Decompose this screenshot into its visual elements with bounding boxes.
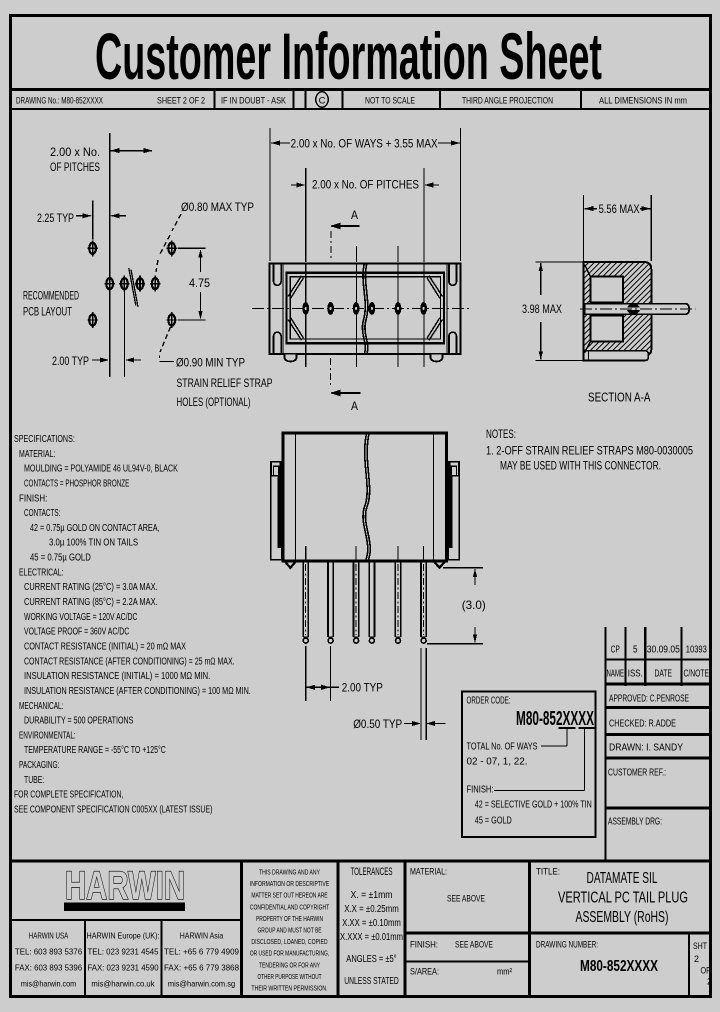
svg-text:HOLES (OPTIONAL): HOLES (OPTIONAL) (177, 395, 251, 409)
svg-text:TOLERANCES: TOLERANCES (351, 866, 393, 878)
leader finish (584, 728, 586, 791)
svg-text:mis@harwin.com.sg: mis@harwin.com.sg (168, 979, 235, 989)
confidentiality disclaimer text (250, 868, 330, 993)
leader total ways (566, 728, 568, 746)
pcb layout second extension line (123, 291, 125, 377)
drawn row (605, 757, 711, 760)
svg-text:HARWIN USA: HARWIN USA (29, 931, 69, 941)
svg-text:SEE ABOVE: SEE ABOVE (447, 894, 485, 905)
svg-text:X.X = ±0.25mm: X.X = ±0.25mm (344, 904, 399, 915)
svg-text:SHT: SHT (693, 941, 707, 951)
svg-text:SHEET 2 OF 2: SHEET 2 OF 2 (157, 96, 205, 107)
section A-A width dimension 5.56 MAX (583, 195, 585, 261)
top view right inner wall (446, 264, 448, 354)
front view pc tail pins (303, 562, 308, 643)
pad row 1 (105, 276, 115, 292)
section A-A bottom plate (584, 351, 649, 361)
svg-text:M80-852XXXX: M80-852XXXX (580, 958, 658, 975)
svg-text:INSULATION RESISTANCE (AFTER C: INSULATION RESISTANCE (AFTER CONDITIONIN… (24, 686, 251, 697)
svg-text:DRAWN: I. SANDY: DRAWN: I. SANDY (609, 743, 683, 754)
svg-text:VOLTAGE PROOF = 360V AC/DC: VOLTAGE PROOF = 360V AC/DC (24, 627, 129, 638)
section A-A cavity entry chamfers (585, 265, 591, 277)
pcb layout pad column extension line (92, 201, 94, 240)
pad bottom-right strain relief hole (167, 312, 177, 328)
section A-A top cavity (591, 277, 624, 303)
pad top-left (87, 240, 97, 256)
svg-text:2: 2 (694, 954, 699, 964)
front view left polarization ear (271, 462, 282, 560)
svg-text:2.00 x No. OF WAYS + 3.55 MAX: 2.00 x No. OF WAYS + 3.55 MAX (291, 137, 438, 151)
svg-text:2.00 x No. OF PITCHES: 2.00 x No. OF PITCHES (312, 178, 419, 192)
svg-text:3.0µ 100% TIN ON TAILS: 3.0µ 100% TIN ON TAILS (49, 538, 138, 549)
svg-text:X.XXX = ±0.01mm: X.XXX = ±0.01mm (340, 932, 403, 943)
top view left inner wall (282, 264, 284, 354)
svg-text:C: C (319, 96, 326, 107)
top view cavity outer rect (287, 273, 445, 343)
pcb layout break slashes (129, 268, 136, 306)
svg-text:mis@harwin.co.uk: mis@harwin.co.uk (91, 979, 155, 989)
svg-text:HARWIN Asia: HARWIN Asia (180, 931, 224, 941)
svg-text:MECHANICAL:: MECHANICAL: (19, 701, 64, 712)
svg-text:CP: CP (611, 645, 620, 656)
svg-text:M80-852XXXX: M80-852XXXX (516, 708, 594, 730)
svg-text:2: 2 (707, 977, 712, 987)
logo/contacts divider (12, 919, 241, 921)
svg-text:X.XX = ±0.10mm: X.XX = ±0.10mm (342, 918, 401, 929)
svg-text:THIRD ANGLE PROJECTION: THIRD ANGLE PROJECTION (462, 96, 553, 107)
svg-text:SEE COMPONENT SPECIFICATION C0: SEE COMPONENT SPECIFICATION C005XX (LATE… (14, 805, 212, 816)
label Ø0.90 MIN TYP strain relief straps with leader (160, 327, 171, 352)
top view latch hooks left (274, 265, 282, 286)
svg-text:CONTACT RESISTANCE (INITIAL) =: CONTACT RESISTANCE (INITIAL) = 20 mΩ MAX (24, 642, 186, 653)
svg-text:A: A (351, 208, 358, 222)
svg-text:45 = 0.75µ GOLD: 45 = 0.75µ GOLD (30, 553, 91, 564)
dimension 4.75 (178, 247, 206, 249)
pcb layout top pitch dimension arrow (110, 150, 152, 152)
svg-text:PACKAGING:: PACKAGING: (19, 760, 60, 771)
svg-text:IF IN DOUBT - ASK: IF IN DOUBT - ASK (221, 96, 287, 107)
front view break line (363, 434, 368, 560)
svg-text:2.00 TYP: 2.00 TYP (342, 681, 383, 695)
svg-text:TITLE:: TITLE: (536, 867, 560, 878)
svg-text:ENVIRONMENTAL:: ENVIRONMENTAL: (19, 730, 76, 741)
top view inner pin extension lines (356, 246, 358, 262)
svg-text:45 = GOLD: 45 = GOLD (475, 816, 512, 827)
pad row 2 (119, 276, 129, 292)
header copyright symbol (316, 92, 328, 108)
svg-text:FOR COMPLETE SPECIFICATION,: FOR COMPLETE SPECIFICATION, (14, 790, 123, 801)
dimension Ø0.50 TYP pin diameter (420, 648, 422, 740)
dimension 2.00 TYP pins (305, 646, 307, 701)
svg-text:4.75: 4.75 (189, 276, 210, 290)
svg-text:ALL DIMENSIONS IN mm: ALL DIMENSIONS IN mm (599, 96, 687, 107)
section A-A bottom cavity (591, 316, 624, 342)
svg-text:INFORMATION OR DESCRIPTIVE: INFORMATION OR DESCRIPTIVE (250, 879, 329, 888)
top view mounting peg tabs (285, 355, 297, 362)
front view right polarization ear (448, 462, 459, 560)
svg-text:CONTACTS:: CONTACTS: (24, 508, 60, 519)
svg-text:DRAWING NUMBER:: DRAWING NUMBER: (536, 940, 598, 951)
svg-text:UNLESS STATED: UNLESS STATED (344, 976, 399, 987)
top view cavity inner rect (290, 277, 440, 339)
header divider lines (214, 91, 216, 108)
svg-text:mis@harwin.com: mis@harwin.com (21, 979, 76, 989)
svg-text:PROPERTY OF THE HARWIN: PROPERTY OF THE HARWIN (256, 914, 323, 923)
bottom block vertical dividers (240, 862, 243, 996)
svg-text:NOTES:: NOTES: (486, 427, 516, 441)
top view contact pins (302, 302, 309, 315)
section arrow A bottom (330, 358, 332, 386)
svg-text:Ø0.90 MIN TYP: Ø0.90 MIN TYP (176, 356, 245, 370)
svg-text:FINISH:: FINISH: (410, 940, 438, 951)
svg-text:TUBE:: TUBE: (24, 775, 44, 786)
svg-text:OF: OF (701, 966, 711, 976)
pad row 3 (135, 276, 145, 292)
svg-text:MAY BE USED WITH THIS CONNECTO: MAY BE USED WITH THIS CONNECTOR. (500, 459, 661, 473)
svg-text:OR USED FOR MANUFACTURING,: OR USED FOR MANUFACTURING, (250, 949, 329, 958)
top view cavity chamfers (288, 276, 302, 297)
section A-A pin channel (585, 303, 652, 315)
svg-text:TEL: +65 6 779 4909: TEL: +65 6 779 4909 (164, 947, 239, 957)
svg-text:MATERIAL:: MATERIAL: (410, 867, 447, 878)
customer ref row (605, 807, 711, 810)
contact cell harwin europe (87, 931, 160, 989)
svg-text:TEMPERATURE RANGE = -55°C TO +: TEMPERATURE RANGE = -55°C TO +125°C (24, 745, 166, 756)
svg-text:THEIR WRITTEN PERMISSION.: THEIR WRITTEN PERMISSION. (251, 984, 327, 993)
svg-text:FINISH:: FINISH: (467, 785, 494, 796)
revision table grid (604, 627, 606, 686)
svg-text:GROUP AND MUST NOT BE: GROUP AND MUST NOT BE (258, 926, 322, 935)
title bar bottom rule (9, 88, 711, 91)
contact cell harwin asia (164, 931, 239, 989)
order code box (462, 692, 596, 838)
svg-text:CURRENT RATING (25°C) = 3.0A M: CURRENT RATING (25°C) = 3.0A MAX. (24, 582, 158, 593)
svg-text:MATERIAL:: MATERIAL: (19, 449, 55, 460)
svg-text:02 - 07, 1, 22.: 02 - 07, 1, 22. (467, 757, 528, 768)
section A-A contact crimp (627, 304, 640, 315)
svg-text:5.56 MAX: 5.56 MAX (599, 202, 640, 216)
svg-text:42 = 0.75µ GOLD ON CONTACT ARE: 42 = 0.75µ GOLD ON CONTACT AREA, (30, 523, 160, 534)
top view pin extension lines through body (305, 264, 307, 367)
svg-text:HARWIN: HARWIN (65, 864, 185, 908)
svg-text:CONFIDENTIAL AND COPYRIGHT: CONFIDENTIAL AND COPYRIGHT (250, 902, 330, 911)
svg-text:SEE ABOVE: SEE ABOVE (455, 940, 493, 951)
svg-text:OF PITCHES: OF PITCHES (50, 160, 100, 174)
svg-text:MOULDING = POLYAMIDE 46 UL94V-: MOULDING = POLYAMIDE 46 UL94V-0, BLACK (24, 464, 178, 475)
finish cell (405, 961, 530, 963)
section A-A height dimension 3.98 MAX (535, 261, 583, 263)
svg-text:TENDERING OR FOR ANY: TENDERING OR FOR ANY (259, 960, 320, 969)
top view horizontal centerline (252, 307, 471, 309)
front view mounting pegs (284, 563, 296, 570)
svg-text:STRAIN RELIEF STRAP: STRAIN RELIEF STRAP (177, 376, 273, 390)
svg-text:10393: 10393 (686, 645, 707, 656)
top view latch hooks right (449, 265, 457, 286)
bottom block top rule (9, 859, 711, 862)
top view overall width dimension 2.00 x No. OF WAYS + 3.55 MAX (269, 128, 271, 261)
svg-text:SECTION A-A: SECTION A-A (588, 391, 651, 405)
svg-text:ASSEMBLY (RoHS): ASSEMBLY (RoHS) (576, 909, 669, 926)
top view body outline (270, 264, 461, 355)
material/finish divider (405, 932, 711, 935)
top view break line (362, 263, 365, 355)
svg-text:S/AREA:: S/AREA: (410, 967, 439, 978)
top view pitch dimension 2.00 x No. OF PITCHES (305, 168, 307, 262)
svg-text:TOTAL No. OF WAYS: TOTAL No. OF WAYS (467, 742, 538, 753)
svg-text:NOT TO SCALE: NOT TO SCALE (365, 96, 415, 107)
order code underlines (559, 727, 576, 729)
pad row 4 (150, 276, 160, 292)
svg-text:C/NOTE: C/NOTE (684, 669, 710, 680)
svg-text:PCB LAYOUT: PCB LAYOUT (23, 305, 72, 319)
section A-A contact pin (585, 304, 690, 314)
section A-A hatched body (584, 262, 652, 356)
contact cell dividers (84, 920, 86, 996)
svg-text:TEL: 603 893 5376: TEL: 603 893 5376 (15, 947, 82, 957)
svg-text:RECOMMENDED: RECOMMENDED (23, 289, 79, 303)
svg-text:CONTACT RESISTANCE (AFTER COND: CONTACT RESISTANCE (AFTER CONDITIONING) … (24, 656, 235, 667)
svg-text:DISCLOSED, LOANED, COPIED: DISCLOSED, LOANED, COPIED (251, 937, 328, 946)
svg-text:APPROVED: C.PENROSE: APPROVED: C.PENROSE (609, 694, 689, 705)
harwin logo underline bar (64, 903, 185, 912)
svg-text:WORKING VOLTAGE = 120V AC/DC: WORKING VOLTAGE = 120V AC/DC (24, 612, 137, 623)
svg-text:DATE: DATE (655, 669, 673, 680)
pcb layout main extension line (109, 133, 111, 377)
svg-text:Ø0.80 MAX TYP: Ø0.80 MAX TYP (181, 200, 254, 214)
svg-text:THIS DRAWING AND ANY: THIS DRAWING AND ANY (259, 868, 320, 877)
svg-text:(3.0): (3.0) (462, 598, 486, 612)
front view pin root stubs (305, 546, 307, 560)
dimension (3.0) tail length (443, 567, 483, 569)
svg-text:FAX: 023 9231 4590: FAX: 023 9231 4590 (87, 963, 158, 973)
contact cell harwin usa (15, 931, 82, 989)
svg-text:FAX: +65 6 779 3868: FAX: +65 6 779 3868 (164, 963, 239, 973)
section A-A pin centerline (580, 308, 696, 310)
svg-text:ELECTRICAL:: ELECTRICAL: (19, 567, 64, 578)
specifications text block (14, 434, 251, 816)
tolerances text (340, 866, 403, 987)
svg-text:30.09.05: 30.09.05 (647, 645, 680, 656)
svg-text:3.98 MAX: 3.98 MAX (522, 302, 562, 316)
svg-text:2.00 x No.: 2.00 x No. (50, 145, 100, 159)
svg-text:NAME: NAME (607, 669, 625, 680)
svg-text:Ø0.50 TYP: Ø0.50 TYP (353, 717, 402, 731)
svg-text:CURRENT RATING (85°C) = 2.2A M: CURRENT RATING (85°C) = 2.2A MAX. (24, 597, 158, 608)
svg-text:CHECKED: R.ADDE: CHECKED: R.ADDE (609, 719, 676, 730)
front view inner wall lines (294, 434, 296, 560)
pad top-right strain relief hole (167, 240, 177, 256)
sheet cell divider (688, 935, 690, 996)
svg-text:MATTER SET OUT HEREON ARE: MATTER SET OUT HEREON ARE (251, 891, 327, 900)
svg-text:5: 5 (633, 645, 638, 656)
svg-text:VERTICAL PC TAIL PLUG: VERTICAL PC TAIL PLUG (558, 890, 688, 907)
svg-text:mm²: mm² (497, 967, 512, 978)
svg-text:FAX: 603 893 5396: FAX: 603 893 5396 (15, 963, 82, 973)
svg-text:ORDER CODE:: ORDER CODE: (467, 696, 511, 707)
svg-text:CONTACTS = PHOSPHOR BRONZE: CONTACTS = PHOSPHOR BRONZE (24, 479, 130, 490)
svg-text:ASSEMBLY DRG:: ASSEMBLY DRG: (608, 817, 662, 828)
svg-text:OTHER PURPOSE WITHOUT: OTHER PURPOSE WITHOUT (258, 972, 322, 981)
svg-text:A: A (351, 399, 358, 413)
svg-text:INSULATION RESISTANCE (INITIAL: INSULATION RESISTANCE (INITIAL) = 1000 M… (24, 671, 210, 682)
svg-text:FINISH:: FINISH: (19, 493, 47, 504)
svg-text:DRAWING No.: M80-852XXXX: DRAWING No.: M80-852XXXX (16, 96, 103, 107)
header row bottom rule (9, 108, 711, 110)
svg-text:Customer Information Sheet: Customer Information Sheet (95, 19, 602, 93)
svg-text:DURABILITY = 500 OPERATIONS: DURABILITY = 500 OPERATIONS (24, 716, 134, 727)
svg-text:ISS.: ISS. (628, 669, 643, 680)
svg-text:TEL: 023 9231 4545: TEL: 023 9231 4545 (87, 947, 158, 957)
approved row (605, 706, 711, 709)
svg-text:1. 2-OFF STRAIN RELIEF STRAPS: 1. 2-OFF STRAIN RELIEF STRAPS M80-003000… (486, 444, 693, 458)
svg-text:DATAMATE SIL: DATAMATE SIL (587, 870, 658, 887)
svg-text:2.25 TYP: 2.25 TYP (37, 211, 74, 225)
front view body outline (283, 433, 446, 561)
svg-text:CUSTOMER REF.:: CUSTOMER REF.: (608, 768, 666, 779)
svg-text:HARWIN Europe (UK):: HARWIN Europe (UK): (87, 931, 160, 941)
svg-text:X. = ±1mm: X. = ±1mm (351, 890, 393, 901)
checked row (605, 733, 711, 736)
svg-text:SPECIFICATIONS:: SPECIFICATIONS: (14, 434, 75, 445)
svg-text:2.00 TYP: 2.00 TYP (52, 354, 89, 368)
pad bottom-left (87, 312, 97, 328)
approval rows left edge (604, 684, 606, 860)
svg-text:ANGLES = ±5°: ANGLES = ±5° (346, 954, 396, 965)
svg-text:42 = SELECTIVE GOLD + 100% TIN: 42 = SELECTIVE GOLD + 100% TIN (475, 800, 592, 811)
